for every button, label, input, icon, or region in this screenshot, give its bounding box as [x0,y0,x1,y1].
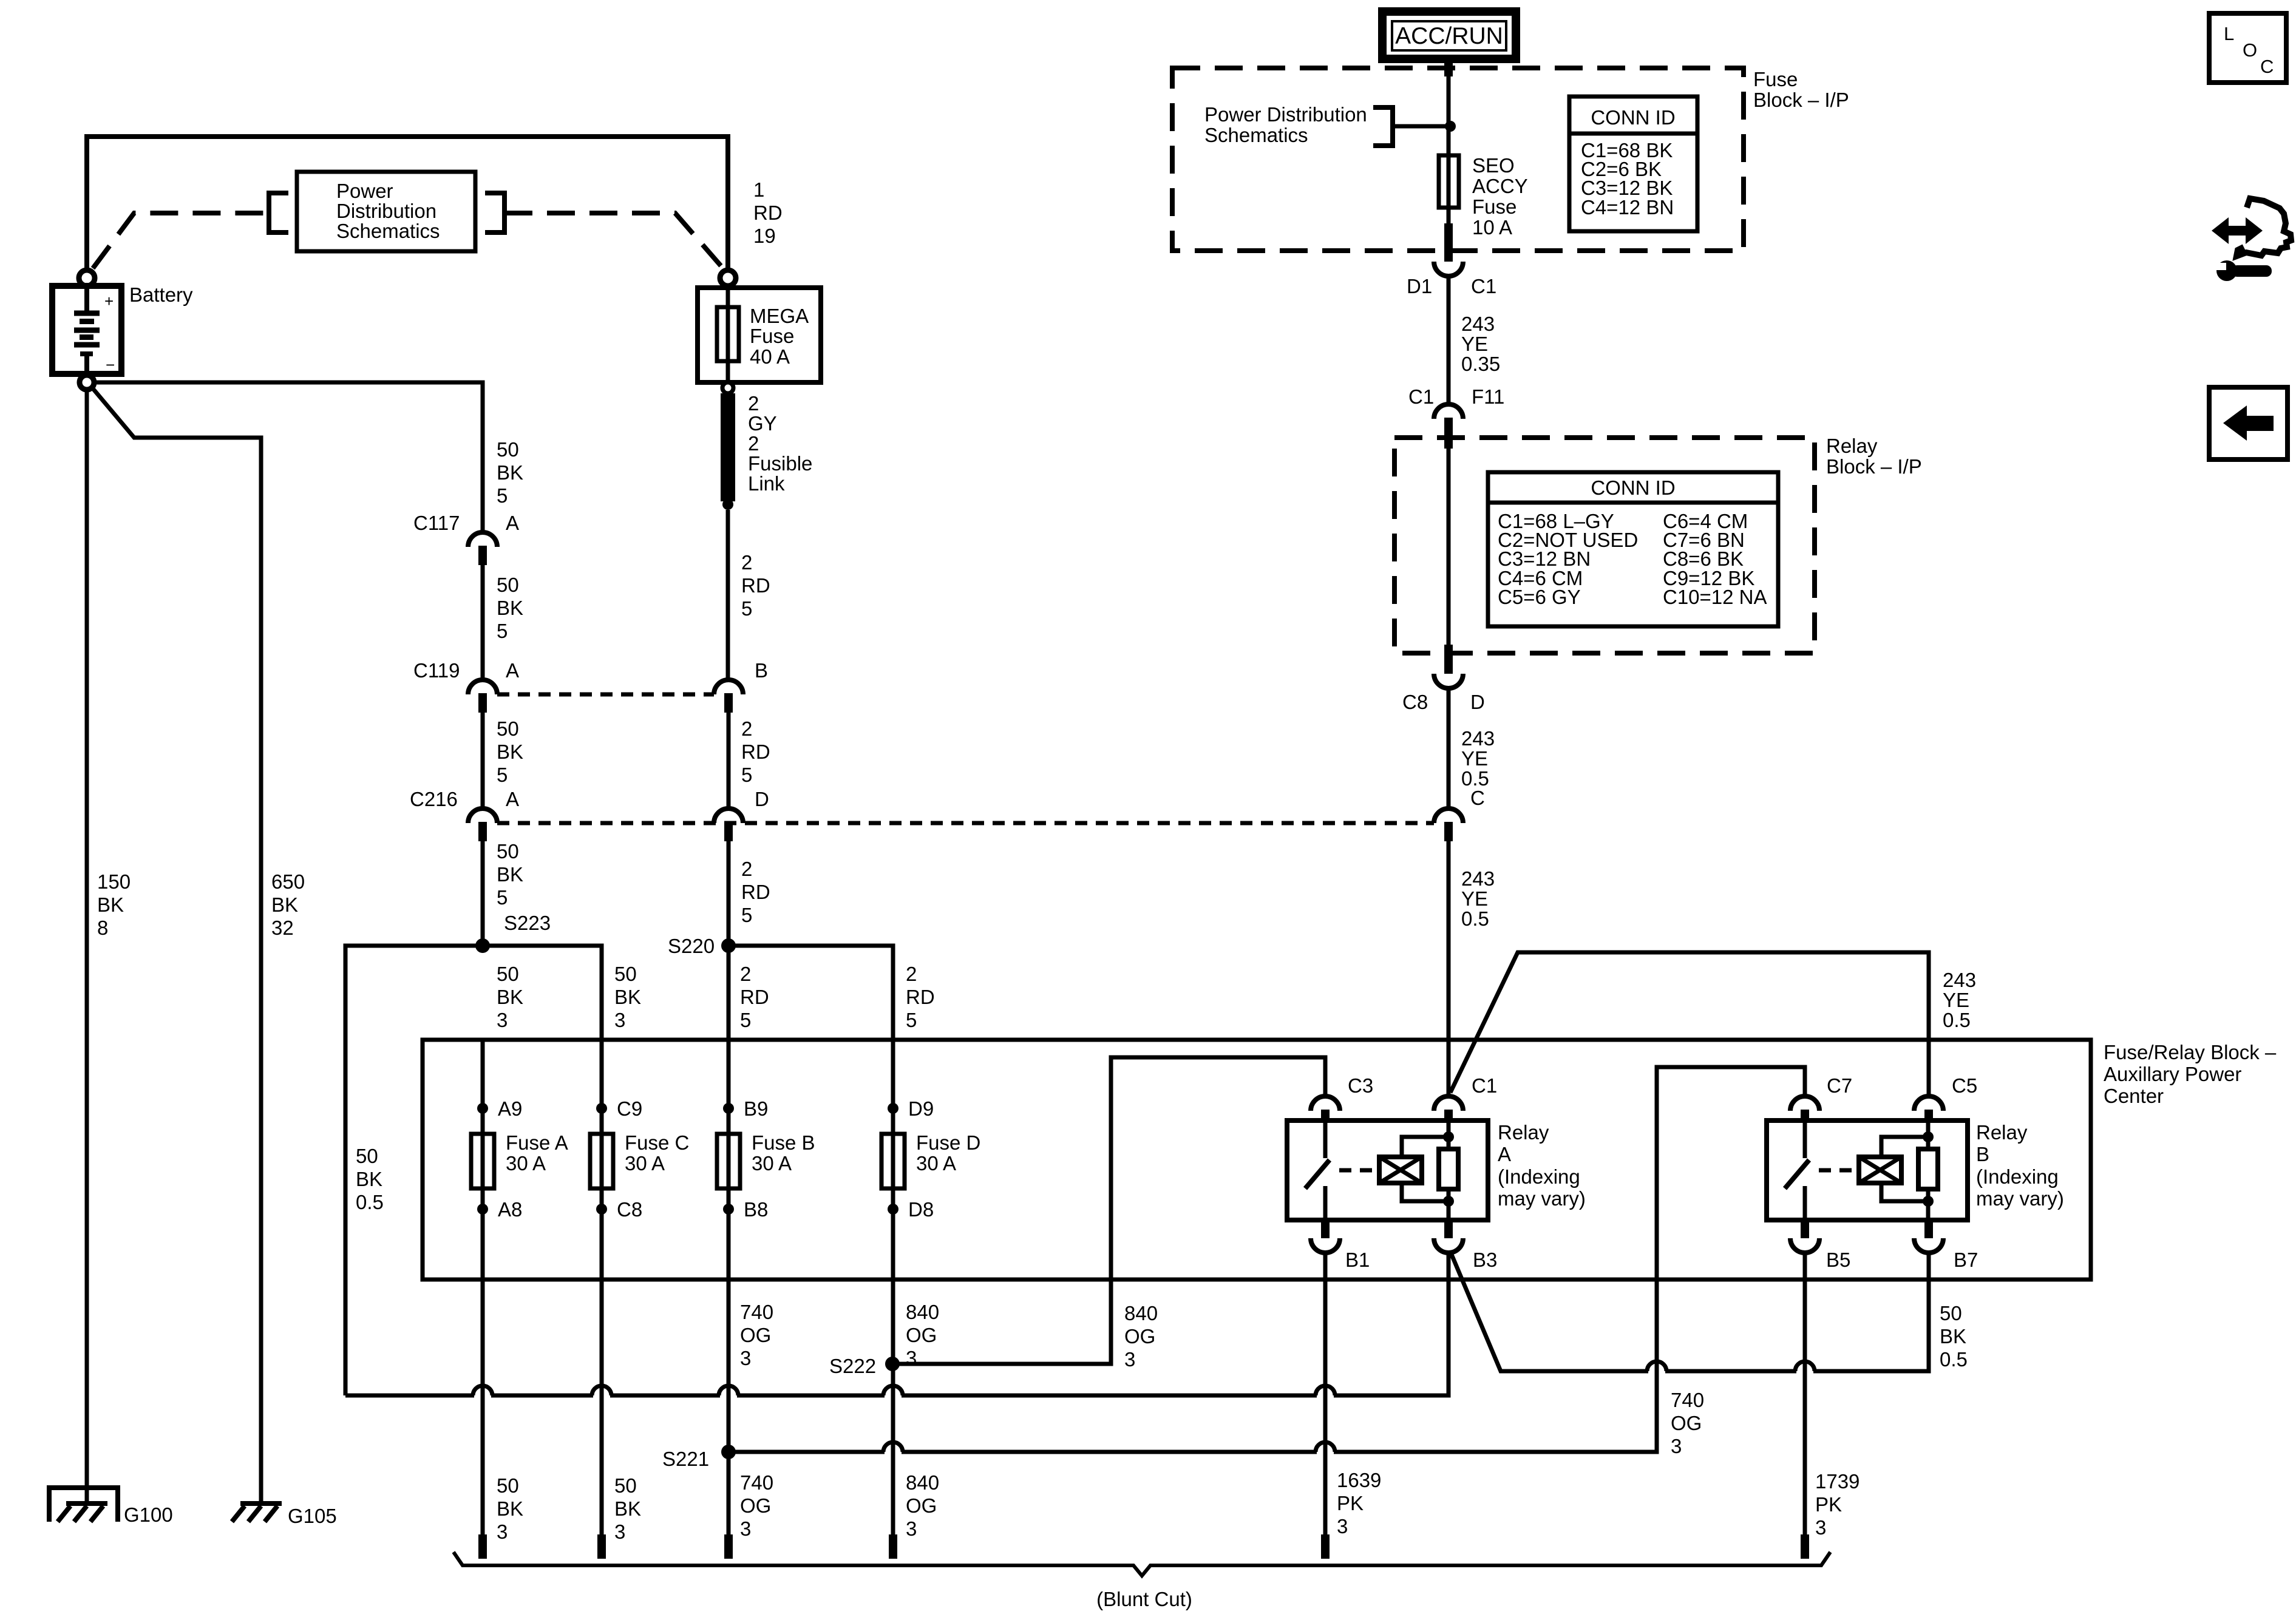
wire 50 BK 0.5 relay A B3 to relay B B7 [1450,1252,1929,1371]
wire fuse D output 840 OG 3 through S222 to blunt cut [891,1280,895,1534]
svg-text:PK: PK [1815,1493,1842,1516]
svg-text:RD: RD [741,881,770,903]
svg-text:BK: BK [614,986,641,1008]
wire S223 branch left 50 BK 0.5 [345,946,483,1395]
svg-text:S220: S220 [668,935,715,957]
wire S220 to fuse B / fuse D [727,946,731,1040]
svg-text:C117: C117 [413,512,460,534]
svg-text:2: 2 [740,963,751,985]
svg-text:RD: RD [753,202,783,224]
svg-text:CONN ID: CONN ID [1591,106,1675,129]
svg-text:RD: RD [741,574,770,597]
relay A [1287,1120,1488,1220]
svg-text:0.5: 0.5 [1461,907,1489,930]
svg-text:BK: BK [497,1497,523,1520]
connector fuse block exit [1444,223,1453,262]
svg-text:19: 19 [753,225,776,247]
svg-text:C9: C9 [617,1097,642,1120]
svg-text:5: 5 [906,1009,917,1031]
svg-text:B1: B1 [1345,1249,1370,1271]
wire battery negative to C117 [95,382,483,532]
relay A pin C3 [1311,1096,1340,1111]
clip right of Power Distribution box [485,193,504,232]
svg-text:(Indexing: (Indexing [1498,1165,1580,1188]
svg-text:OG: OG [740,1494,771,1517]
svg-text:740: 740 [740,1471,773,1494]
relay B coil resistor [1926,1120,1931,1149]
svg-text:2: 2 [741,551,752,574]
svg-text:0.5: 0.5 [1943,1009,1971,1031]
svg-text:243: 243 [1461,313,1495,335]
svg-text:30 A: 30 A [625,1152,665,1175]
CONN ID table relay block [1488,472,1778,626]
svg-text:BK: BK [614,1497,641,1520]
svg-text:GY: GY [748,412,777,435]
svg-text:3: 3 [740,1517,751,1540]
fuse D 30 A [891,1040,895,1280]
fuse A 30 A [481,1040,485,1280]
svg-text:Relay: Relay [1826,435,1878,457]
svg-text:D: D [755,788,769,810]
svg-text:840: 840 [1124,1302,1158,1324]
svg-text:C216: C216 [410,788,458,810]
svg-text:Fuse A: Fuse A [506,1131,568,1154]
svg-text:D1: D1 [1407,275,1432,297]
dashed wire Power Distribution to MEGA fuse [504,213,723,268]
svg-text:may vary): may vary) [1498,1187,1586,1210]
MEGA fuse lower terminal ring [722,382,733,393]
connector C216 pin D [714,808,743,823]
wire ACC/RUN into fuse block [1447,59,1451,223]
svg-text:A9: A9 [498,1097,522,1120]
svg-text:Relay: Relay [1976,1121,2028,1144]
wire relay B B5 output 1739 PK 3 to blunt cut [1803,1253,1807,1534]
Fuse Block - I/P dashed box [1172,68,1744,251]
svg-text:BK: BK [97,893,124,916]
svg-text:OG: OG [740,1324,771,1346]
svg-text:C: C [2260,56,2274,77]
relay A pin C1 [1434,1096,1463,1111]
svg-text:O: O [2243,39,2257,61]
svg-text:5: 5 [497,620,508,642]
svg-text:2: 2 [741,717,752,740]
svg-text:YE: YE [1943,989,1969,1011]
svg-text:C8: C8 [617,1198,642,1221]
svg-text:D8: D8 [908,1198,934,1221]
svg-text:C7: C7 [1827,1074,1852,1097]
svg-text:1639: 1639 [1337,1469,1381,1491]
svg-text:B: B [1976,1143,1989,1165]
LOC icon box [2209,13,2286,83]
svg-text:S222: S222 [829,1355,876,1377]
svg-text:0.35: 0.35 [1461,353,1500,375]
wire battery positive to MEGA fuse [87,137,728,269]
connector C119 pin A [468,680,497,694]
svg-text:243: 243 [1461,727,1495,750]
svg-text:L: L [2224,23,2234,44]
back arrow icon box [2209,387,2288,459]
svg-text:G105: G105 [288,1505,337,1527]
connector C (dashed from C216) [1434,808,1463,823]
svg-text:Relay: Relay [1498,1121,1549,1144]
svg-text:5: 5 [740,1009,751,1031]
svg-text:5: 5 [497,886,508,909]
wire S223 branch right to Fuse C [483,946,602,1040]
svg-text:32: 32 [271,917,294,939]
svg-text:Fuse: Fuse [750,325,794,347]
svg-text:3: 3 [497,1009,508,1031]
svg-text:Power Distribution: Power Distribution [1204,103,1367,126]
svg-text:(Blunt Cut): (Blunt Cut) [1096,1588,1192,1610]
svg-text:OG: OG [1124,1325,1155,1347]
svg-text:Block – I/P: Block – I/P [1753,89,1849,111]
vehicle service icon [2212,198,2291,281]
ACC/RUN ignition feed box [1382,12,1516,59]
svg-text:C3: C3 [1348,1074,1373,1097]
svg-text:2: 2 [748,432,759,455]
svg-text:MEGA: MEGA [750,305,809,327]
svg-text:ACC/RUN: ACC/RUN [1395,23,1503,49]
svg-text:Fuse: Fuse [1472,195,1517,218]
svg-text:Auxillary Power: Auxillary Power [2104,1063,2241,1085]
svg-text:C5: C5 [1952,1074,1977,1097]
svg-text:3: 3 [1671,1435,1682,1457]
wire through relay block [1447,449,1451,645]
CONN ID table fuse block [1569,97,1697,231]
svg-text:Fuse C: Fuse C [625,1131,689,1154]
svg-text:F11: F11 [1472,385,1504,408]
svg-text:8: 8 [97,917,108,939]
svg-text:3: 3 [614,1520,625,1543]
svg-text:840: 840 [906,1471,939,1494]
svg-text:243: 243 [1461,867,1495,890]
svg-text:C4=12 BN: C4=12 BN [1581,196,1674,219]
relay B [1767,1120,1968,1220]
wire label 50 BK 5 [481,841,485,946]
relay A switch [1323,1120,1328,1158]
svg-text:50: 50 [497,717,519,740]
svg-text:Schematics: Schematics [336,220,440,242]
relay A coil [1379,1157,1422,1183]
wire battery to G105 [92,388,261,1501]
clip left of Power Distribution box [269,193,288,232]
svg-text:A: A [506,659,519,682]
svg-text:3: 3 [740,1347,751,1369]
svg-text:BK: BK [497,597,523,619]
svg-text:BK: BK [271,893,298,916]
svg-text:BK: BK [497,863,523,886]
Power Distribution Schematics box [297,172,475,251]
svg-text:B8: B8 [744,1198,768,1221]
svg-text:RD: RD [741,741,770,763]
svg-text:(Indexing: (Indexing [1976,1165,2059,1188]
svg-text:Distribution: Distribution [336,200,436,222]
MEGA fuse terminal ring [720,270,736,286]
svg-text:50: 50 [497,574,519,596]
relay B pin B7 [1924,1220,1933,1238]
svg-text:C1: C1 [1471,275,1496,297]
connector C216 pin A [468,808,497,823]
blunt cut brace [453,1552,1830,1576]
svg-text:150: 150 [97,870,131,893]
svg-text:5: 5 [741,597,752,620]
svg-text:YE: YE [1461,333,1488,355]
svg-text:C8: C8 [1402,691,1428,713]
svg-text:A8: A8 [498,1198,522,1221]
battery B+ terminal ring [79,270,95,286]
svg-text:50: 50 [614,1474,637,1497]
svg-text:Link: Link [748,472,785,495]
svg-text:ACCY: ACCY [1472,175,1528,197]
svg-text:5: 5 [741,764,752,786]
svg-text:B: B [755,659,768,682]
svg-text:50: 50 [614,963,637,985]
svg-text:243: 243 [1943,969,1976,991]
svg-text:B9: B9 [744,1097,768,1120]
svg-text:C1: C1 [1408,385,1434,408]
dashed connector line C216 A-D-C [497,821,1434,825]
svg-text:0.5: 0.5 [1940,1348,1968,1371]
svg-text:5: 5 [741,904,752,926]
wire label 243 YE 0.5 [1447,688,1451,808]
svg-text:Power: Power [336,180,393,202]
svg-text:Fuse/Relay Block –: Fuse/Relay Block – [2104,1041,2277,1063]
svg-text:40 A: 40 A [750,345,790,368]
svg-text:C5=6 GY: C5=6 GY [1498,586,1581,608]
svg-text:C1: C1 [1472,1074,1497,1097]
battery [52,286,121,374]
svg-text:YE: YE [1461,887,1488,910]
MEGA Fuse 40 A [698,288,821,382]
svg-text:SEO: SEO [1472,154,1515,177]
fusible link [721,393,735,501]
fuse B 30 A [727,1040,731,1280]
svg-text:50: 50 [497,963,519,985]
connector C117 pin A [468,532,497,547]
dashed connector line C119 A-B [497,693,714,697]
wire 740 OG 3 S221 to relay B switch C7 [729,1067,1805,1452]
relay B pin C7 [1790,1096,1819,1111]
fuse C 30 A [600,1040,604,1280]
svg-text:G100: G100 [124,1503,173,1526]
svg-text:D: D [1470,691,1485,713]
wire label 243 YE 0.35 [1447,276,1451,404]
svg-text:30 A: 30 A [916,1152,956,1175]
Fuse/Relay Block - Auxillary Power Center box [423,1040,2091,1280]
svg-text:BK: BK [497,461,523,484]
svg-text:2: 2 [741,858,752,880]
wire 243 YE 0.5 branch to relay B C5 [1450,952,1929,1096]
svg-text:A: A [506,788,519,810]
svg-text:840: 840 [906,1301,939,1323]
relay B pin B5 [1801,1220,1809,1238]
svg-text:PK: PK [1337,1492,1364,1514]
svg-text:C: C [1470,787,1485,809]
wire fuse A output 50 BK 3 to blunt cut [481,1280,485,1534]
svg-text:C119: C119 [413,659,460,682]
svg-text:may vary): may vary) [1976,1187,2064,1210]
svg-text:30 A: 30 A [506,1152,546,1175]
svg-text:BK: BK [356,1168,382,1190]
svg-text:3: 3 [1337,1515,1348,1537]
svg-text:50: 50 [497,840,519,863]
svg-text:BK: BK [497,986,523,1008]
svg-text:740: 740 [1671,1389,1704,1411]
wire 150 BK 8 to G100 [85,390,89,1501]
svg-text:50: 50 [497,438,519,461]
svg-text:30 A: 30 A [752,1152,792,1175]
ground G105 [240,1501,282,1506]
svg-text:3: 3 [1815,1516,1826,1539]
dashed wire battery to Power Distribution Schematics [93,213,267,268]
svg-text:Center: Center [2104,1085,2164,1107]
svg-text:2: 2 [748,392,759,415]
svg-text:C10=12 NA: C10=12 NA [1663,586,1767,608]
svg-text:1: 1 [753,178,764,201]
svg-text:3: 3 [614,1009,625,1031]
svg-text:3: 3 [906,1517,917,1540]
svg-text:CONN ID: CONN ID [1591,476,1675,499]
wire label 243 YE 0.5 [1447,841,1451,1096]
svg-text:Fuse: Fuse [1753,68,1798,90]
relay B pin C5 [1914,1096,1943,1111]
svg-text:+: + [104,292,114,310]
wire fusible link to connector B [726,510,730,680]
svg-text:RD: RD [906,986,935,1008]
svg-text:BK: BK [1940,1325,1966,1347]
svg-text:50: 50 [356,1145,378,1167]
svg-text:5: 5 [497,764,508,786]
svg-text:D9: D9 [908,1097,934,1120]
relay A pin B3 [1444,1220,1453,1238]
wire label 2 RD 5 [727,713,731,808]
relay B coil [1859,1157,1901,1183]
svg-text:RD: RD [740,986,769,1008]
svg-text:B5: B5 [1826,1249,1850,1271]
svg-text:1739: 1739 [1815,1470,1860,1493]
ground G100 [49,1488,118,1522]
svg-text:OG: OG [906,1324,937,1346]
SEO ACCY Fuse 10 A [1439,155,1459,208]
junction node [1445,121,1456,132]
relay A pin B1 [1321,1220,1330,1238]
wire 50 BK 0.5 bottom run to relay coils [345,1253,1449,1395]
svg-text:A: A [1498,1143,1511,1165]
svg-text:Fuse B: Fuse B [752,1131,815,1154]
svg-text:Block – I/P: Block – I/P [1826,455,1922,478]
connector relay block exit C8/D [1444,645,1453,674]
svg-text:Fuse D: Fuse D [916,1131,980,1154]
svg-text:10 A: 10 A [1472,216,1512,239]
wire label 50 BK 5 [481,713,485,808]
wire fuse C output 50 BK 3 to blunt cut [600,1280,604,1534]
svg-text:−: − [106,356,115,374]
svg-text:Fusible: Fusible [748,452,812,475]
svg-text:650: 650 [271,870,305,893]
wire relay A B1 output 1639 PK 3 to blunt cut [1323,1253,1328,1534]
svg-text:50: 50 [497,1474,519,1497]
svg-text:OG: OG [1671,1412,1702,1434]
svg-text:OG: OG [906,1494,937,1517]
wire label 50 BK 5 [481,565,485,680]
Relay Block - I/P dashed box [1394,438,1815,653]
svg-text:0.5: 0.5 [356,1191,384,1213]
svg-text:S223: S223 [504,912,551,934]
svg-text:Battery: Battery [129,283,193,306]
svg-text:YE: YE [1461,747,1488,770]
relay A coil resistor [1447,1120,1451,1149]
relay B switch [1803,1120,1807,1158]
svg-text:BK: BK [497,741,523,763]
wire label 2 RD 5 [727,841,731,946]
clip to Power Distribution Schematics [1373,107,1393,146]
svg-text:50: 50 [1940,1302,1962,1324]
svg-text:3: 3 [497,1520,508,1543]
svg-text:S221: S221 [662,1448,709,1470]
connector C119 pin B [714,680,743,694]
svg-text:A: A [506,512,519,534]
svg-text:Schematics: Schematics [1204,124,1308,146]
wire fuse B output 740 OG 3 through S221 to blunt cut [727,1280,731,1534]
svg-text:3: 3 [1124,1348,1135,1371]
svg-text:5: 5 [497,484,508,507]
svg-text:B7: B7 [1954,1249,1978,1271]
svg-text:740: 740 [740,1301,773,1323]
svg-text:B3: B3 [1473,1249,1497,1271]
svg-text:2: 2 [906,963,917,985]
battery B- terminal ring [80,375,94,390]
wire 840 OG 3 S222 to relay A coil C3 [892,1057,1325,1364]
